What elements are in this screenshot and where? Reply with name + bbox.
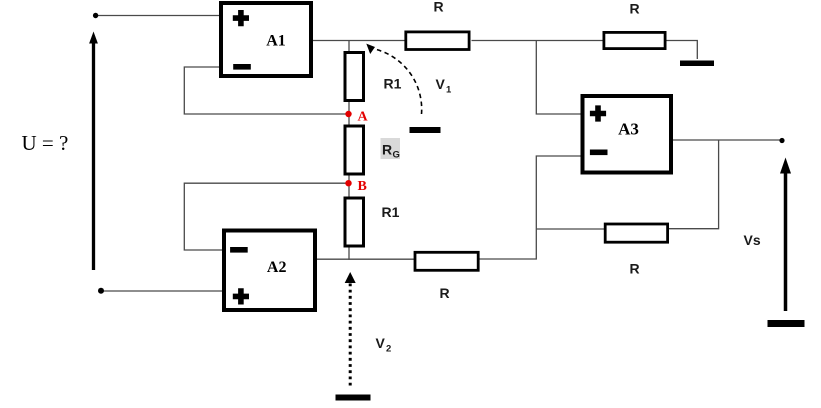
op-amp A1 xyxy=(221,3,311,76)
node: bottom-left input terminal dot xyxy=(98,288,104,294)
ground after top second R xyxy=(680,61,714,67)
svg-text:R1: R1 xyxy=(382,204,400,220)
svg-text:B: B xyxy=(358,179,367,194)
wire: bottom resistor R to inverting node vertical xyxy=(479,156,581,259)
label R (top second) xyxy=(629,1,639,17)
wire: feedback R row to inverting vertical xyxy=(536,228,604,230)
wire: between top resistors R and R xyxy=(472,40,603,42)
resistor R (top second) xyxy=(604,32,665,48)
wire: lower R1 bottom to A2 output row xyxy=(348,246,350,260)
resistor RG (middle vertical) xyxy=(345,126,364,174)
resistor R (bottom, from A2 output) xyxy=(415,252,478,270)
wire: A3 output to right terminal xyxy=(673,139,782,141)
svg-text:Vs: Vs xyxy=(744,232,761,248)
wire: top-left input to A1 + xyxy=(96,15,220,17)
wire: RG bottom through node B to lower R1 top xyxy=(348,174,350,197)
resistor R (top first) xyxy=(406,32,469,50)
label V2 xyxy=(376,335,392,355)
svg-text:1: 1 xyxy=(446,85,452,96)
wire: A2 output row to bottom resistor R xyxy=(317,258,414,260)
svg-text:V: V xyxy=(436,76,446,92)
Vs reference bar xyxy=(768,320,805,327)
svg-text:U = ?: U = ? xyxy=(22,131,69,155)
V1 reference bar xyxy=(410,127,441,133)
svg-text:A1: A1 xyxy=(266,33,286,50)
wire: stub A1 output down to R1 top xyxy=(348,41,350,53)
label RG with highlight xyxy=(381,138,401,161)
arrow Vs (right, pointing up) xyxy=(780,158,791,312)
wire: A1 output row to resistor R (top first) xyxy=(313,40,405,42)
wire: A2 inverting feedback to node B xyxy=(184,183,346,250)
svg-text:R: R xyxy=(629,261,639,277)
resistor R (A3 feedback) xyxy=(605,224,667,242)
label V1 xyxy=(436,76,453,96)
node: top-left input terminal dot xyxy=(93,13,98,18)
svg-text:G: G xyxy=(393,150,400,161)
arrow U (left, pointing up) xyxy=(89,32,98,271)
svg-text:V: V xyxy=(376,335,386,351)
wire: R1 bottom through node A to RG top xyxy=(348,102,350,125)
label R1 (upper) xyxy=(384,76,402,92)
svg-text:R: R xyxy=(433,0,443,15)
wire: feedback R to output vertical xyxy=(669,140,719,229)
svg-text:A2: A2 xyxy=(267,259,287,276)
wire: bottom-left input to A2 + xyxy=(100,290,222,292)
resistor R1 (upper vertical) xyxy=(345,53,364,101)
node B (red dot) xyxy=(345,180,351,186)
label R (bottom) xyxy=(439,285,449,301)
op-amp A3 xyxy=(583,96,672,173)
V2 reference bar xyxy=(336,395,371,401)
wire: A1 inverting feedback to node A xyxy=(184,67,346,114)
label R (feedback) xyxy=(629,261,639,277)
node: A3 output terminal dot xyxy=(779,138,784,143)
label A (red) xyxy=(358,110,369,125)
svg-text:R: R xyxy=(629,1,639,17)
label U = ? xyxy=(22,131,69,155)
resistor R1 (lower vertical) xyxy=(345,198,364,246)
svg-text:R: R xyxy=(382,142,392,158)
label Vs xyxy=(744,232,761,248)
label R (top first) xyxy=(433,0,443,15)
label R1 (lower) xyxy=(382,204,400,220)
wire: second top R to ground xyxy=(667,41,698,60)
svg-text:R1: R1 xyxy=(384,76,402,92)
op-amp A2 xyxy=(224,231,315,311)
node A (red dot) xyxy=(345,111,351,117)
svg-text:A: A xyxy=(358,110,369,125)
arrow V2 (dotted, pointing up at A2 output row) xyxy=(345,272,356,386)
label B (red) xyxy=(358,179,367,194)
arrow V1 (dashed curved, to top of R1) xyxy=(366,44,421,114)
svg-text:R: R xyxy=(439,285,449,301)
svg-text:2: 2 xyxy=(386,344,391,355)
svg-text:A3: A3 xyxy=(618,119,639,138)
wire: top row down to A3 non-inverting input xyxy=(536,41,580,115)
